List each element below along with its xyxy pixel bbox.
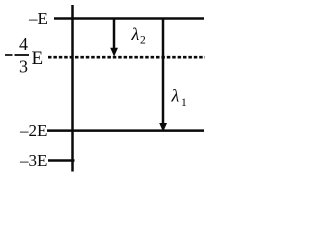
svg-text:–3E: –3E [19,151,47,170]
transition arrow lambda-1 head [159,123,167,132]
svg-text:–E: –E [28,9,48,28]
level line -2E [47,129,204,132]
level line -3E [48,159,75,162]
svg-text:λ: λ [131,24,140,44]
label -4/3 E : fraction bar [15,54,30,56]
level line -4/3 E (dashed) [48,56,205,59]
svg-text:E: E [32,48,44,69]
svg-text:4: 4 [19,34,28,54]
svg-text:1: 1 [181,97,187,109]
svg-text:3: 3 [19,57,28,77]
svg-text:2: 2 [140,35,146,47]
svg-text:–2E: –2E [19,121,47,140]
transition arrow lambda-2 shaft [113,19,116,49]
level line -E [54,17,204,20]
transition arrow lambda-2 head [110,48,118,57]
svg-text:λ: λ [171,85,180,105]
label -4/3 E : minus sign [5,54,13,56]
transition arrow lambda-1 shaft [162,19,165,124]
energy axis vertical line [71,5,74,172]
